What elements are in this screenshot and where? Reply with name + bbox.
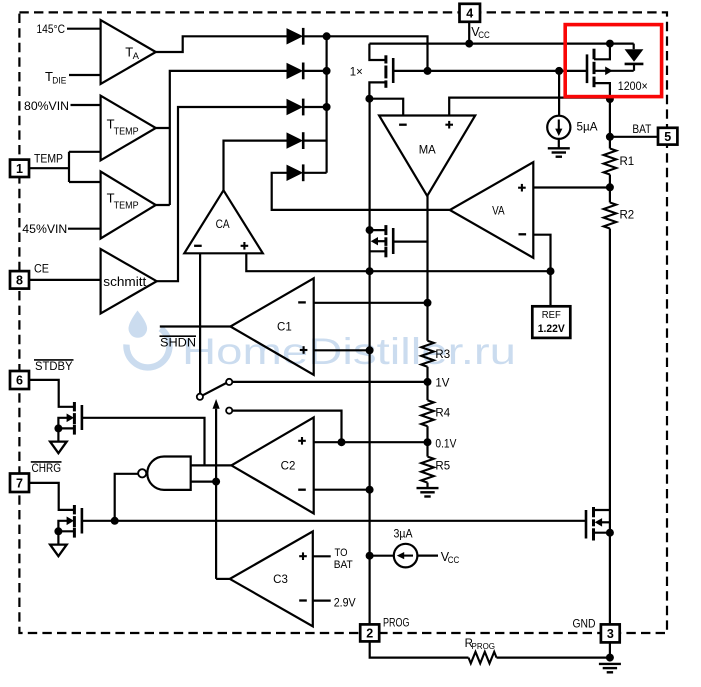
label VCC 3uA (441, 550, 460, 565)
resistor R3 (421, 341, 434, 367)
C1 minus input mark (298, 301, 306, 303)
label 2.9V (334, 597, 356, 609)
svg-text:TEMP: TEMP (114, 200, 139, 211)
label VCC pin4 (471, 25, 490, 40)
label 1200x (618, 81, 648, 93)
svg-text:7: 7 (16, 476, 23, 490)
label R4 (435, 408, 450, 420)
wire C2 minus input (314, 489, 370, 491)
wire Q1 drain to VCC (369, 44, 386, 60)
svg-text:R5: R5 (435, 461, 450, 473)
transistor Q5 gate bar (585, 510, 588, 539)
svg-text:2: 2 (366, 627, 373, 641)
junction Q1 source node (365, 95, 373, 103)
junction Q5 source (606, 529, 614, 537)
label TDIE (45, 69, 66, 87)
label SHDN (160, 336, 197, 349)
wire pin2 to RPROG (370, 641, 469, 657)
voltage reference REF 1.22V (532, 306, 570, 338)
label STDBY (34, 359, 74, 373)
wire pin3 to GND node (609, 642, 611, 658)
current source I2 3uA (394, 544, 418, 568)
label 145 degC (37, 22, 66, 36)
wire Q6 source to ground (57, 531, 59, 544)
wire Q5 source stub (594, 532, 610, 534)
junction R1-R2 divider (606, 183, 614, 191)
svg-text:R3: R3 (435, 349, 450, 361)
ground below 5uA (548, 148, 570, 156)
Q6 body arrow (58, 517, 74, 532)
svg-text:CHRG: CHRG (32, 461, 62, 475)
transistor Q3 drain stub (370, 229, 386, 231)
wire 80%VIN to TTEMP1 (71, 104, 101, 106)
junction MA plus sense node (606, 95, 614, 103)
diode D3 (287, 99, 303, 116)
resistor R5 (421, 457, 434, 483)
transistor Q6 source stub (58, 530, 74, 532)
ground below pin3 (599, 664, 621, 672)
svg-text:C1: C1 (277, 322, 292, 334)
wire 145degC to TA (67, 28, 101, 30)
junction C1 plus tap (366, 346, 374, 354)
junction VCC 1200x (606, 40, 614, 48)
junction gate line bus-drop (424, 67, 432, 75)
wire TDIE to TA (69, 74, 101, 76)
svg-text:3: 3 (607, 627, 614, 641)
wire C3 minus stub (313, 599, 331, 601)
transistor Q4 channel (73, 402, 76, 435)
svg-text:A: A (133, 51, 140, 62)
wire VCC rail (369, 42, 633, 44)
svg-text:80%VIN: 80%VIN (24, 99, 69, 113)
junction VCC pin4 (465, 40, 473, 48)
watermark droplet logo (126, 311, 169, 368)
pin 5 BAT (658, 128, 677, 145)
switch control arrow (213, 399, 220, 579)
transistor Q1 1x gate bar (392, 58, 395, 83)
wire pin7 to Q6 drain (29, 483, 74, 510)
wire TEMP net (29, 152, 101, 182)
junction GND node (606, 654, 614, 662)
wire M2 gate stub (393, 241, 427, 243)
label 0.1V (435, 438, 456, 450)
svg-text:REF: REF (542, 310, 561, 321)
junction Q6 source-body (54, 527, 62, 535)
comparator C1 (230, 278, 313, 375)
ground arrow below Q6 (50, 545, 67, 557)
transistor Q4 source stub (58, 427, 74, 429)
label TTEMP2 (107, 190, 139, 211)
wire 1V line (232, 381, 427, 383)
wire 0.1V switch line (232, 411, 341, 443)
schmitt trigger (101, 249, 157, 314)
junction bus-D3 (323, 103, 331, 111)
C2 minus input mark (298, 489, 306, 491)
label BAT (632, 124, 651, 136)
svg-text:CC: CC (448, 555, 460, 565)
C2 plus input mark (298, 437, 306, 445)
red highlight box (565, 25, 661, 97)
wire D4 cathode to bus (303, 140, 326, 142)
svg-text:TO: TO (335, 547, 348, 559)
svg-text:R2: R2 (620, 210, 635, 222)
resistor RPROG (469, 652, 497, 664)
pin 8 CE (10, 271, 29, 289)
label CHRG (31, 461, 62, 475)
label 5uA (577, 121, 598, 133)
label TA (125, 44, 139, 62)
junction BAT node (606, 133, 614, 141)
wire C1 output SHDN (160, 325, 231, 327)
wire C3 output (216, 578, 230, 580)
pin 1 TEMP (10, 160, 29, 177)
wire MA output vertical (426, 196, 428, 341)
wire long gate line CHRG (82, 520, 586, 522)
wire Q2 drain stub down (594, 83, 610, 99)
svg-text:1200×: 1200× (618, 81, 648, 93)
svg-text:TEMP: TEMP (34, 151, 63, 165)
label 3uA (394, 529, 413, 541)
CA minus input mark (194, 245, 202, 247)
svg-text:VA: VA (492, 205, 505, 217)
wire Q2 drain to BAT node (609, 99, 611, 149)
junction 0.1V line (338, 438, 346, 446)
junction 1V tap (424, 378, 432, 386)
label TEMP (34, 151, 63, 165)
svg-text:GND: GND (573, 618, 596, 630)
junction ref line PROG-vert (366, 267, 374, 275)
pin 3 GND (601, 624, 620, 642)
comparator TA (101, 20, 156, 84)
label schmitt (103, 274, 146, 289)
wire R4 to R5 (426, 426, 428, 456)
label 1V (435, 378, 449, 390)
Q2 body arrow (605, 67, 612, 76)
svg-text:C3: C3 (273, 574, 288, 586)
wire Q2 body line (594, 70, 634, 72)
NAND gate U1 (138, 457, 191, 490)
wire VA output to diode D5 (272, 173, 450, 210)
label R5 (435, 461, 450, 473)
svg-text:1.22V: 1.22V (538, 323, 566, 335)
pin 6 STDBY (10, 371, 29, 389)
wire C3 plus stub (313, 555, 331, 557)
wire TTEMP outputs to diode D2 (156, 71, 287, 205)
pin 4 VCC (460, 4, 481, 22)
label CA (216, 219, 230, 231)
svg-text:BAT: BAT (334, 559, 353, 571)
label 1x (350, 67, 363, 79)
svg-text:STDBY: STDBY (35, 359, 73, 373)
transistor Q3 channel (384, 225, 387, 257)
junction ref line VA tap (547, 267, 555, 275)
junction C2 minus tap (366, 486, 374, 494)
wire gate line to 5uA source (558, 71, 560, 116)
wire MA minus input (369, 99, 403, 116)
label R3 (435, 349, 450, 361)
op-amp CA (184, 190, 262, 253)
wire pin4 to VCC rail (468, 22, 470, 44)
svg-text:2.9V: 2.9V (334, 597, 356, 609)
pin 7 CHRG (10, 474, 29, 493)
svg-text:BAT: BAT (632, 124, 651, 136)
svg-text:45%VIN: 45%VIN (22, 222, 67, 236)
wire 3uA right VCC (418, 554, 438, 556)
diode D1 (287, 28, 303, 45)
svg-text:DIE: DIE (52, 76, 66, 87)
wire R5 to ground (426, 483, 428, 488)
switch arm (203, 383, 227, 395)
svg-text:CA: CA (216, 219, 230, 231)
body diode D6 anode wire (633, 44, 635, 50)
transistor Q6 channel (73, 505, 76, 538)
svg-text:3µA: 3µA (394, 529, 413, 541)
wire D3 cathode to bus (303, 106, 326, 108)
comparator TTEMP (45% VIN) (101, 172, 156, 239)
wire reference line CA plus (246, 253, 550, 271)
junction C1 minus tap (424, 299, 432, 307)
wire schmitt output to diode D3 (157, 107, 287, 281)
junction Q4 source-body (54, 424, 62, 432)
watermark text HomeDistiller.ru (182, 331, 516, 372)
junction 3uA tap (366, 552, 374, 560)
wire C1 plus input (314, 349, 370, 351)
wire Q5 to pin3 (609, 510, 611, 624)
resistor R2 (604, 203, 617, 229)
junction bus-D2 (323, 67, 331, 75)
comparator TTEMP (80% VIN) (101, 96, 156, 161)
wire Q1 source down (369, 82, 386, 98)
wire gate line 1x to 1200x (393, 70, 587, 72)
comparator C3 (230, 531, 313, 626)
wire ref line to REF box (549, 271, 551, 306)
ground below R5 (417, 488, 439, 496)
svg-text:MA: MA (419, 145, 436, 157)
transistor Q2 1200x gate bar (586, 54, 589, 83)
transistor Q3 source stub (370, 250, 386, 252)
C3 minus input mark (299, 599, 307, 601)
ground arrow below Q4 (50, 442, 67, 454)
wire PROG vertical (369, 99, 371, 625)
label 80%VIN (24, 99, 69, 113)
label TO BAT (334, 547, 353, 571)
label C1 (277, 322, 292, 334)
switch pole contact (197, 394, 203, 400)
svg-text:4: 4 (466, 6, 473, 20)
junction NAND output tap (111, 517, 119, 525)
wire 45%VIN to TTEMP2 (68, 228, 101, 230)
diode D2 (287, 63, 303, 80)
junction 0.1V tap (424, 438, 432, 446)
wire CA minus to switch (199, 253, 201, 393)
wire MA plus input (449, 98, 610, 116)
diode D5 (287, 164, 303, 181)
diode D4 (287, 132, 303, 149)
transistor Q2 1200x channel (593, 49, 596, 87)
junction NAND input2 (212, 478, 220, 486)
op-amp MA (379, 116, 475, 197)
svg-text:C2: C2 (281, 461, 296, 473)
label C3 (273, 574, 288, 586)
label CE (34, 262, 49, 276)
svg-text:5: 5 (664, 130, 671, 144)
svg-text:1V: 1V (435, 378, 449, 390)
transistor Q3 gate bar (392, 228, 395, 254)
junction gate line 5uA tap (555, 67, 563, 75)
wire Q4 gate line (82, 418, 205, 466)
wire Q2 source stub to VCC (594, 44, 610, 60)
svg-text:CC: CC (478, 30, 490, 40)
resistor R1 (604, 149, 617, 175)
pin 2 PROG (360, 624, 379, 641)
resistor R4 (421, 400, 434, 426)
wire D5 cathode to bus (303, 172, 326, 174)
VA plus input mark (518, 184, 526, 192)
wire NAND output (115, 474, 138, 521)
wire bus to gate line (327, 36, 428, 71)
transistor Q1 1x channel (384, 55, 387, 88)
svg-text:1×: 1× (350, 67, 363, 79)
switch throw contact 1V (226, 379, 232, 385)
switch throw contact 0.1V (226, 408, 232, 414)
transistor Q5 channel (592, 507, 595, 541)
comparator C2 (231, 417, 313, 513)
wire Q4 source to ground (57, 428, 59, 441)
wire TA output to diode D1 (156, 36, 287, 52)
label C2 (281, 461, 296, 473)
CA plus input mark (241, 242, 249, 250)
MA minus input mark (399, 124, 407, 126)
junction M2 drain (366, 226, 374, 234)
wire NAND input2 (191, 481, 216, 483)
VA minus input mark (519, 233, 527, 235)
wire 0.1V line C2 plus (314, 441, 428, 443)
transistor Q6 gate bar (81, 508, 84, 534)
svg-text:6: 6 (16, 374, 23, 388)
wire gate-drive bus vertical (326, 36, 328, 173)
svg-text:1: 1 (16, 162, 23, 176)
Q5 body arrow (595, 518, 610, 527)
C3 plus input mark (299, 552, 307, 560)
svg-text:145°C: 145°C (37, 22, 66, 36)
label 45%VIN (22, 222, 67, 236)
wire R1 to R2 (609, 175, 611, 203)
svg-text:R4: R4 (435, 408, 450, 420)
label R2 (620, 210, 635, 222)
wire R3 to R4 (426, 367, 428, 401)
wire R2 down to Q5 (609, 229, 611, 511)
svg-text:TEMP: TEMP (114, 126, 139, 137)
Q3 body arrow (371, 237, 386, 245)
wire RPROG to GND node (497, 656, 610, 658)
op-amp VA (450, 162, 534, 258)
label R1 (620, 156, 635, 168)
label TTEMP1 (107, 116, 139, 137)
label MA (419, 145, 436, 157)
transistor Q4 gate bar (81, 405, 84, 430)
wire D1 cathode to bus (303, 35, 326, 37)
wire Q5 drain stub (594, 509, 610, 511)
Q4 body arrow (58, 414, 74, 429)
wire pin6 to Q4 drain (29, 380, 74, 407)
wire 5uA to ground (558, 139, 560, 148)
C1 plus input mark (300, 346, 308, 354)
svg-text:PROG: PROG (383, 617, 410, 629)
MA plus input mark (445, 121, 453, 129)
svg-text:PROG: PROG (472, 641, 496, 651)
wire NAND input1 C2 out (191, 464, 232, 466)
wire D2 cathode to bus (303, 70, 326, 72)
wire C1 minus input (314, 302, 428, 304)
label RPROG (465, 638, 495, 651)
current source I1 5uA (547, 116, 570, 139)
body diode D6 (625, 49, 644, 71)
wire CE to schmitt (29, 279, 101, 281)
svg-text:0.1V: 0.1V (435, 438, 456, 450)
wire 3uA left (370, 555, 394, 557)
svg-text:8: 8 (16, 273, 23, 287)
wire divider to VA plus (533, 186, 610, 188)
junction bus-D1 (323, 32, 331, 40)
label VA (492, 205, 505, 217)
svg-text:SHDN: SHDN (160, 338, 196, 350)
wire VA minus to ref line (533, 235, 550, 272)
svg-text:5µA: 5µA (577, 121, 598, 133)
svg-text:CE: CE (34, 262, 49, 276)
wire BAT to pin5 (610, 136, 658, 138)
wire CA output to diode D4 (224, 141, 288, 191)
label GND (573, 618, 596, 630)
label PROG (383, 617, 410, 629)
svg-text:schmitt: schmitt (103, 274, 146, 289)
svg-text:R1: R1 (620, 156, 635, 168)
